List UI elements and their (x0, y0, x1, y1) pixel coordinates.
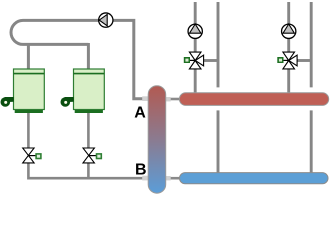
wire boiler 2 return drop (87, 112, 90, 149)
wire boiler 1 return drop (27, 112, 30, 149)
valve M2 (circuit 2 three-way mixing) (277, 52, 297, 69)
pump P2 (circuit 2) (282, 24, 296, 38)
svg-text:B: B (135, 161, 147, 178)
wire circuit 2 return riser lower (310, 110, 313, 174)
wire boiler 1 riser (top) (27, 43, 30, 70)
supply manifold (red) (179, 93, 328, 106)
boiler 1 burner (1, 97, 14, 107)
wire separator to supply manifold connector (166, 98, 180, 101)
wire boiler loop top: U-bend and top header to separator (11, 20, 143, 98)
wire circuit 1 valve bypass (203, 59, 218, 62)
valve V2 (boiler 2 isolation) (83, 148, 102, 163)
node A flange left (142, 96, 148, 101)
wire circuit 2 return riser upper (310, 2, 313, 87)
wire boiler 2 return tee (87, 162, 90, 179)
node B flange right (165, 176, 170, 180)
pump P0 (boiler loop) (99, 13, 113, 27)
wire bottom return header to separator B (28, 162, 143, 178)
pump P1 (circuit 1) (188, 24, 202, 38)
wire circuit 1 return riser lower (217, 110, 220, 174)
boiler 1 body (14, 69, 45, 113)
valve V1 (boiler 1 isolation) (23, 148, 42, 163)
wire boiler 2 riser (top) (87, 43, 90, 70)
return manifold (blue) (180, 173, 329, 184)
wire circuit 1 supply riser (194, 2, 197, 95)
node B flange left (142, 176, 148, 181)
node A flange right (165, 97, 170, 101)
valve M1 (circuit 1 three-way mixing) (184, 52, 204, 69)
boiler 2 body (74, 69, 105, 113)
hydraulic separator AB (148, 86, 166, 194)
wire circuit 1 return riser upper (217, 2, 220, 87)
boiler 2 burner (61, 97, 74, 107)
svg-text:A: A (134, 104, 146, 121)
wire circuit 2 valve bypass (297, 59, 312, 62)
wire separator to return manifold connector (166, 177, 181, 180)
wire circuit 2 supply riser (287, 2, 290, 95)
